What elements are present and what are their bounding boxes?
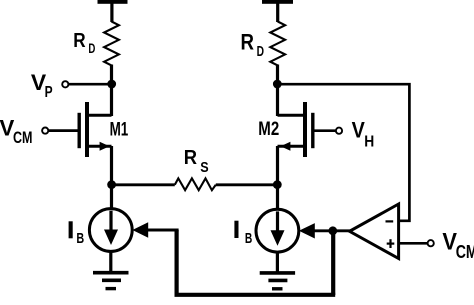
- svg-text:M1: M1: [110, 119, 129, 140]
- resistor RD1: [104, 22, 119, 66]
- node D: [328, 226, 337, 235]
- transistor M2: [278, 102, 313, 157]
- wire feedback top: [278, 84, 410, 221]
- resistor RD2: [270, 22, 285, 66]
- svg-text:H: H: [364, 133, 374, 150]
- wire: [399, 242, 428, 245]
- current source IB2: [256, 209, 299, 252]
- wire: [110, 65, 113, 117]
- resistor RS: [175, 178, 216, 190]
- wire: [216, 183, 278, 186]
- svg-text:D: D: [88, 40, 95, 56]
- transistor M1: [79, 102, 111, 157]
- node A: [107, 180, 116, 189]
- label IB1: [69, 221, 73, 238]
- ground: [93, 251, 129, 289]
- svg-text:V: V: [352, 117, 365, 142]
- terminal VP: [62, 81, 68, 87]
- svg-text:P: P: [45, 84, 53, 101]
- node C: [273, 180, 282, 189]
- control arrowhead IB1: [132, 222, 148, 237]
- wire control loop bottom: [148, 230, 335, 295]
- VDD rail right: [262, 0, 293, 4]
- svg-text:R: R: [73, 29, 86, 52]
- svg-text:M2: M2: [258, 119, 279, 140]
- VDD rail left: [98, 0, 128, 4]
- wire: [315, 129, 336, 132]
- wire: [112, 183, 175, 186]
- svg-text:B: B: [76, 231, 84, 247]
- op-amp U1: [350, 204, 399, 259]
- svg-text:S: S: [200, 159, 208, 176]
- current source IB1: [89, 209, 132, 252]
- wire opamp output: [314, 229, 351, 232]
- svg-text:D: D: [257, 44, 264, 60]
- node VP: [107, 80, 116, 89]
- wire: [110, 146, 113, 209]
- svg-text:R: R: [184, 147, 198, 169]
- svg-text:B: B: [245, 231, 252, 247]
- wire: [276, 146, 279, 210]
- wire: [276, 65, 279, 117]
- terminal VCM1: [42, 128, 48, 134]
- wire: [69, 83, 112, 86]
- wire: [110, 2, 113, 22]
- ground: [260, 252, 295, 289]
- svg-text:CM: CM: [13, 128, 33, 147]
- terminal VH: [336, 128, 342, 134]
- label IB2: [234, 221, 238, 238]
- node B: [273, 80, 282, 89]
- svg-text:CM: CM: [456, 241, 474, 262]
- terminal VCM2: [428, 240, 434, 246]
- svg-text:R: R: [241, 30, 255, 55]
- wire: [276, 2, 279, 22]
- control arrowhead IB2: [299, 223, 315, 238]
- wire: [49, 129, 78, 132]
